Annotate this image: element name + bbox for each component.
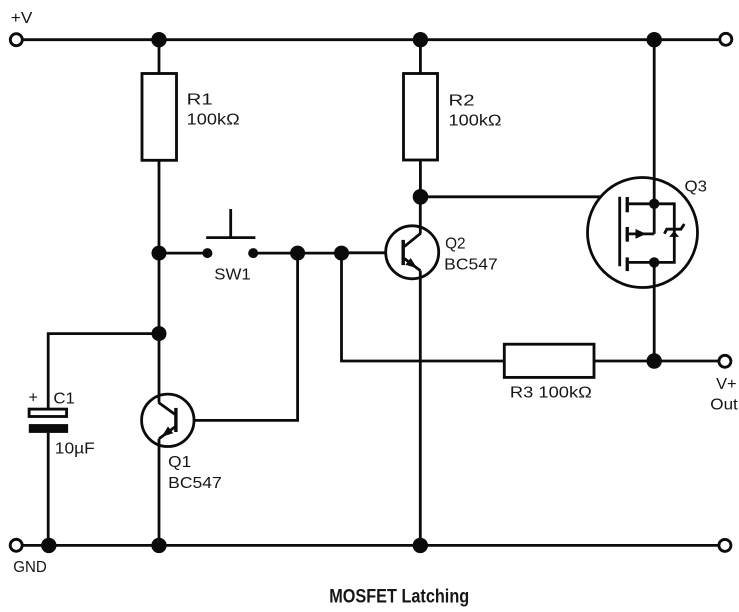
wire node B down to R3 row — [342, 253, 505, 361]
svg-text:GND: GND — [13, 559, 47, 576]
terminal GND left — [10, 539, 22, 551]
wire C1 to gnd — [47, 433, 50, 546]
svg-text:SW1: SW1 — [214, 267, 251, 284]
terminal top right — [720, 33, 732, 45]
svg-text:MOSFET Latching: MOSFET Latching — [329, 585, 469, 607]
Q3 body diode — [669, 231, 679, 237]
resistor R2 — [404, 74, 438, 161]
Q3 drain connect — [629, 261, 654, 264]
svg-text:R3 100kΩ: R3 100kΩ — [510, 384, 592, 401]
wire SW1 right contact to node A — [253, 252, 297, 255]
transistor Q2 — [386, 197, 439, 546]
svg-text:C1: C1 — [53, 391, 75, 408]
svg-text:BC547: BC547 — [168, 475, 222, 492]
wire rail to R2 — [419, 40, 422, 74]
Q3 source wire from rail — [653, 40, 656, 204]
svg-text:Q3: Q3 — [685, 179, 708, 196]
wire R2 to gate node — [419, 160, 422, 197]
capacitor C1 — [29, 409, 67, 416]
Q3 channel bar top — [626, 197, 629, 212]
resistor R1 — [142, 74, 177, 161]
wire node B to Q2 base — [342, 251, 402, 254]
junction gnd / Q1 — [151, 538, 166, 553]
wire node A to node B — [298, 252, 342, 255]
junction top rail / R1 — [151, 32, 166, 47]
Q3 source connect — [629, 202, 654, 205]
svg-text:+: + — [29, 390, 38, 407]
switch SW1 — [202, 248, 212, 258]
wire top +V rail — [23, 38, 719, 41]
Q3 gate bar — [618, 197, 621, 266]
Q3 body line with arrow — [629, 232, 654, 235]
Q3 channel bar middle — [626, 227, 629, 242]
svg-text:BC547: BC547 — [444, 257, 498, 274]
svg-text:R1: R1 — [187, 92, 213, 109]
transistor Q1 — [142, 334, 194, 546]
Q3 drain internal dot — [649, 257, 659, 267]
node A junction — [290, 246, 305, 261]
svg-text:R2: R2 — [449, 93, 475, 110]
svg-text:Out: Out — [710, 396, 738, 413]
junction top rail / R2 — [413, 32, 428, 47]
wire R1 to switch node — [158, 160, 161, 253]
wire switch node to Q1 collector — [158, 253, 161, 334]
wire node A to Q1 base — [178, 253, 298, 420]
mosfet Q3 — [588, 40, 698, 361]
svg-text:Q2: Q2 — [445, 236, 466, 253]
Q3 body diode branch — [654, 204, 674, 263]
svg-text:100kΩ: 100kΩ — [187, 111, 240, 128]
node B junction — [334, 246, 349, 261]
junction top rail / Q3 source — [647, 32, 662, 47]
junction cap tap — [152, 326, 167, 341]
wire cap tap to C1 — [48, 334, 159, 410]
wire out node to terminal — [654, 360, 718, 363]
wire switch node to SW1 left contact — [159, 252, 207, 255]
terminal V+ Out — [719, 355, 731, 367]
wire rail to R1 — [158, 40, 161, 74]
wire gate node to Q3 gate — [421, 197, 620, 266]
junction gnd / Q2 — [413, 538, 428, 553]
junction switch node — [152, 246, 167, 261]
resistor R3 — [504, 344, 594, 377]
svg-text:+V: +V — [11, 10, 33, 27]
svg-text:100kΩ: 100kΩ — [449, 112, 502, 129]
Q3 drain wire down — [653, 262, 656, 361]
svg-text:V+: V+ — [716, 376, 737, 393]
Q3 source internal dot — [649, 199, 659, 209]
junction out node — [647, 353, 662, 368]
Q3 channel bar bottom — [626, 257, 629, 271]
junction gate node — [413, 189, 429, 205]
terminal +V left — [10, 34, 22, 46]
svg-text:10µF: 10µF — [55, 440, 95, 457]
junction gnd / C1 — [41, 538, 56, 553]
terminal GND right — [719, 539, 731, 551]
wire gnd rail — [23, 544, 718, 547]
wire R3 to out node — [594, 360, 654, 363]
svg-text:Q1: Q1 — [168, 454, 191, 471]
